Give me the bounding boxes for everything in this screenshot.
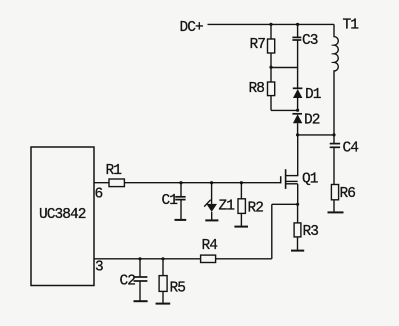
- svg-text:Z1: Z1: [219, 198, 235, 214]
- transformer T1 primary winding: [334, 24, 338, 134]
- svg-text:C4: C4: [343, 141, 359, 157]
- resistor R4: [201, 255, 216, 262]
- svg-text:R6: R6: [340, 186, 356, 202]
- junction dot rail/C3: [296, 23, 299, 26]
- ground below R3: [291, 250, 304, 252]
- svg-text:3: 3: [95, 260, 103, 276]
- svg-text:D2: D2: [304, 112, 320, 128]
- diode D2: [292, 113, 302, 115]
- wire pin3 net: [94, 258, 272, 260]
- ground below Z1: [205, 219, 218, 221]
- wire source node to left: [272, 203, 298, 205]
- svg-text:R4: R4: [202, 238, 218, 254]
- svg-text:R2: R2: [248, 201, 264, 217]
- ground below R6: [328, 211, 344, 213]
- junction dot rail/R7: [269, 23, 272, 26]
- resistor R1: [109, 179, 124, 187]
- ground below R2: [234, 226, 248, 228]
- svg-text:C3: C3: [302, 33, 318, 49]
- capacitor C4: [333, 135, 335, 143]
- capacitor C2: [139, 259, 141, 277]
- junction dot Z1 tap: [210, 181, 213, 184]
- resistor R8: [270, 68, 272, 83]
- svg-text:C1: C1: [162, 193, 178, 209]
- wire down to pin3 net: [271, 204, 273, 258]
- junction dot T1/C4 node: [332, 133, 335, 136]
- IC U1 UC3842 box: [31, 147, 94, 286]
- svg-text:6: 6: [95, 187, 103, 203]
- ground below R5: [156, 303, 171, 305]
- junction dot R7/R8: [269, 66, 272, 69]
- capacitor C1: [180, 183, 182, 197]
- svg-text:UC3842: UC3842: [39, 207, 86, 223]
- svg-text:D1: D1: [305, 87, 321, 103]
- junction dot Q1 source node: [296, 203, 299, 206]
- junction dot C1 tap: [179, 181, 182, 184]
- wire R8 bottom to D1/D2 junction: [271, 109, 298, 111]
- svg-text:R5: R5: [170, 281, 186, 297]
- svg-text:R3: R3: [303, 224, 319, 240]
- svg-text:R1: R1: [106, 163, 122, 179]
- junction dot R5 tap: [161, 257, 164, 260]
- resistor R7: [270, 24, 272, 39]
- diode D1: [293, 87, 303, 89]
- junction dot drain node: [296, 133, 299, 136]
- resistor R6: [331, 185, 338, 200]
- capacitor C3: [297, 24, 299, 37]
- svg-text:T1: T1: [343, 18, 359, 34]
- wire R7/R8 junction to C3 line: [271, 67, 298, 69]
- svg-text:R8: R8: [249, 81, 265, 97]
- svg-text:DC+: DC+: [180, 20, 204, 36]
- junction dot R2 tap: [240, 181, 243, 184]
- ground below C2: [134, 300, 148, 302]
- resistor R3: [297, 204, 299, 223]
- ground below C1: [175, 219, 187, 221]
- svg-text:C2: C2: [120, 273, 136, 289]
- resistor R2: [240, 183, 242, 199]
- svg-text:Q1: Q1: [302, 172, 318, 188]
- resistor R5: [162, 259, 164, 276]
- wire pin6 net (gate line): [94, 182, 281, 184]
- zener diode Z1: [211, 183, 213, 204]
- junction dot C2 tap: [138, 257, 141, 260]
- wire DC+ rail: [208, 23, 335, 25]
- svg-text:R7: R7: [250, 37, 266, 53]
- transistor Q1 MOSFET: [281, 135, 299, 204]
- junction dot D1/D2: [296, 109, 299, 112]
- wire drain node to T1/C4: [298, 134, 334, 136]
